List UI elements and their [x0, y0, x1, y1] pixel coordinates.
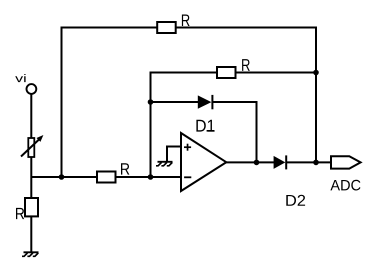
- wire D1 branch left: [151, 101, 199, 103]
- wire feedback 1 top horizontal left of R1: [61, 27, 158, 29]
- wire right vertical (feedback bus): [315, 27, 317, 163]
- wire non-inverting input to ground: [167, 147, 181, 162]
- label ADC: [330, 180, 360, 191]
- wire op-amp output: [226, 161, 274, 163]
- wire feedback 2 vertical: [150, 73, 152, 178]
- wire main input node horizontal (left of R3): [31, 176, 97, 178]
- resistor R4 body: [25, 198, 38, 216]
- wire variable resistor to resistor R4: [30, 157, 32, 198]
- variable resistor (photoresistor) body: [28, 138, 34, 157]
- label R1: [182, 15, 190, 27]
- label R2: [242, 59, 250, 71]
- wire R4 to ground: [30, 216, 32, 252]
- label R3: [121, 163, 129, 174]
- label vi: [15, 74, 25, 82]
- node Vi terminal circle: [27, 84, 37, 94]
- resistor R2 body: [217, 67, 236, 78]
- op-amp plus sign: [184, 144, 191, 151]
- wire feedback 2 horizontal left of R2: [150, 72, 218, 74]
- wire vi terminal to variable resistor: [30, 94, 32, 138]
- ground (earth) bottom: [22, 252, 39, 256]
- label D2: [286, 195, 305, 206]
- diode D1: [198, 95, 212, 108]
- wire D1 branch vertical down: [256, 101, 258, 162]
- node junction dot F (right bus / output): [313, 160, 319, 166]
- ground (earth) at op-amp + input: [156, 162, 173, 166]
- wire feedback 1 vertical: [61, 28, 63, 178]
- node junction dot B (inverting node, feedback 2 tap): [148, 174, 154, 180]
- op-amp U1 triangle: [181, 133, 226, 191]
- node junction dot E (output / D1 join): [254, 160, 260, 166]
- wire D2 to ADC: [286, 161, 331, 163]
- wire R3 to op-amp inverting input: [116, 176, 182, 178]
- label R4: [16, 208, 24, 219]
- resistor R1 body: [157, 22, 176, 33]
- variable resistor arrow: [21, 139, 40, 157]
- label D1: [207, 130, 215, 132]
- node junction dot C (right bus / feedback 2): [313, 70, 319, 76]
- resistor R3 body: [97, 172, 116, 183]
- node junction dot A (feedback 1 tap): [59, 174, 65, 180]
- wire D1 branch right: [212, 101, 256, 103]
- node junction dot D (D1 branch tap): [148, 99, 154, 105]
- wire feedback 2 horizontal right of R2: [236, 72, 317, 74]
- wire feedback 1 top horizontal right of R1: [176, 27, 316, 29]
- op-amp minus sign: [184, 176, 191, 178]
- diode D2: [274, 156, 286, 169]
- ADC output tag: [331, 156, 361, 168]
